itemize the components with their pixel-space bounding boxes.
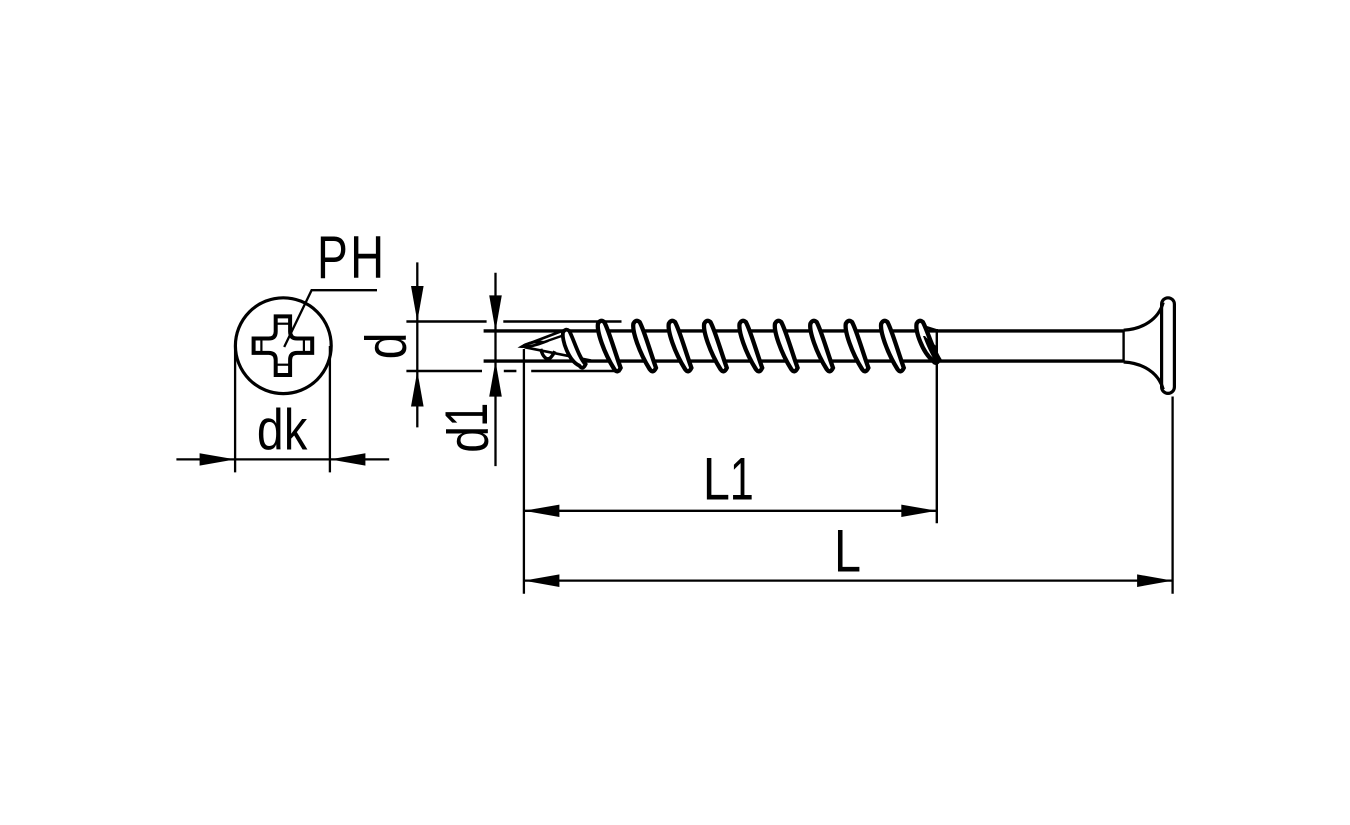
- phillips recess tick left: [260, 339, 262, 353]
- dk extension line right: [329, 346, 331, 472]
- phillips recess PH cross outline: [254, 316, 313, 375]
- leader line from PH label to recess: [284, 290, 377, 347]
- dk arrow left: [200, 453, 236, 465]
- small thread nub near tip: [541, 349, 555, 359]
- thread crest 8: [846, 321, 869, 372]
- label dk: [257, 398, 308, 462]
- L arrow right: [1137, 574, 1173, 587]
- medium thread crest on taper: [563, 330, 586, 368]
- d1 arrow top: [489, 295, 502, 331]
- phillips recess tick top: [276, 323, 290, 325]
- phillips recess tick bottom: [276, 364, 290, 366]
- L1 arrow right: [901, 505, 937, 517]
- label L1: [703, 446, 754, 514]
- svg-text:d: d: [257, 398, 284, 462]
- d extension line top (thread crest line): [406, 320, 621, 322]
- head junction line: [1122, 330, 1124, 362]
- svg-text:d: d: [355, 332, 419, 359]
- d arrow top: [411, 286, 424, 322]
- screw tip lower taper line: [525, 347, 592, 360]
- L arrow left: [524, 574, 560, 587]
- thread crest 6: [775, 321, 798, 372]
- L1 arrow left: [524, 505, 560, 517]
- d dimension line vertical: [416, 262, 418, 427]
- bugle head bottom curve: [1124, 362, 1164, 389]
- thread crest 10 with runout: [916, 321, 939, 363]
- svg-text:L: L: [703, 446, 730, 513]
- thread end line / L1 extension line: [936, 329, 938, 523]
- thread crest 2: [633, 321, 656, 372]
- thread crest 3: [669, 321, 692, 372]
- dk extension line left: [234, 346, 236, 472]
- svg-text:k: k: [284, 399, 308, 462]
- svg-text:d: d: [437, 426, 501, 453]
- svg-text:L: L: [834, 518, 861, 585]
- L dimension line: [524, 579, 1173, 581]
- L extension line right (from head): [1171, 397, 1173, 594]
- svg-text:H: H: [350, 224, 384, 291]
- d extension line bottom (dashed thread crest line): [406, 370, 620, 372]
- screw core top line: [484, 329, 1124, 332]
- svg-text:1: 1: [434, 403, 501, 427]
- screw core bottom line: [484, 359, 1124, 362]
- svg-text:P: P: [317, 225, 348, 291]
- dk arrow right: [330, 453, 366, 465]
- thread crest 7: [810, 321, 833, 372]
- head cap (stadium): [1162, 298, 1175, 394]
- d1 dimension line vertical: [494, 273, 496, 466]
- L extension line left (from tip): [523, 349, 525, 594]
- d arrow bottom: [411, 371, 424, 407]
- screw tip point lens: [522, 342, 544, 347]
- svg-text:1: 1: [730, 447, 754, 514]
- d1 arrow bottom: [489, 361, 502, 397]
- thread crest 5: [739, 321, 762, 372]
- thread crest 9: [881, 321, 904, 372]
- thread crest 4: [704, 321, 727, 372]
- phillips recess tick right: [303, 339, 305, 353]
- screw head front view circle: [235, 298, 331, 394]
- screw tip upper taper line: [524, 330, 566, 346]
- thread crest 1: [598, 321, 621, 372]
- thread runout wedge line: [926, 327, 937, 330]
- L1 dimension line: [524, 510, 937, 512]
- bugle head top curve: [1124, 303, 1164, 331]
- screw tip upper taper second line: [542, 334, 568, 343]
- label PH: [317, 224, 384, 291]
- dk dimension line: [176, 458, 389, 460]
- label d1 (rotated): [434, 403, 501, 453]
